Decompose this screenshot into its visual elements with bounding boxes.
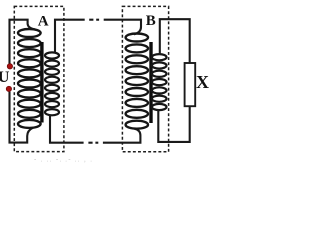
svg-text:- . .. -. .- .. , .: - . .. -. .- .. , . bbox=[34, 157, 93, 164]
transformer A core bar bbox=[40, 42, 43, 123]
wire: bottom line to B primary bbox=[103, 129, 140, 143]
transmission line break top (dash) bbox=[89, 19, 93, 21]
wire: A secondary top lead bbox=[55, 20, 85, 54]
transmission line break bottom (dash) bbox=[88, 142, 92, 144]
transformer A secondary coil bbox=[45, 52, 59, 115]
svg-text:A: A bbox=[38, 13, 49, 29]
transmission line break top (dot) bbox=[96, 19, 99, 21]
terminal dot lower (red) bbox=[6, 86, 11, 91]
svg-text:U: U bbox=[0, 69, 10, 86]
wire: load bottom lead to B secondary bbox=[158, 106, 189, 142]
load resistor X body bbox=[185, 63, 196, 106]
transformer A dashed enclosure bbox=[14, 6, 64, 151]
transformer B secondary coil bbox=[152, 54, 167, 110]
svg-text:X: X bbox=[196, 72, 209, 92]
wire: source top lead to A primary bbox=[10, 20, 35, 64]
wire: source bottom lead to A primary bbox=[10, 92, 34, 143]
terminal dot upper (red) bbox=[7, 64, 12, 69]
transformer A primary coil bbox=[18, 29, 41, 128]
wire: top line to B primary bbox=[104, 20, 141, 35]
transformer B core bar bbox=[149, 42, 152, 123]
transformer B dashed enclosure bbox=[122, 6, 168, 151]
transformer B primary coil bbox=[126, 34, 148, 129]
transmission line break bottom (dot) bbox=[95, 142, 98, 144]
wire: A secondary bottom lead bbox=[50, 115, 84, 143]
wire: B secondary top lead to load bbox=[160, 19, 190, 63]
svg-text:B: B bbox=[146, 13, 156, 29]
